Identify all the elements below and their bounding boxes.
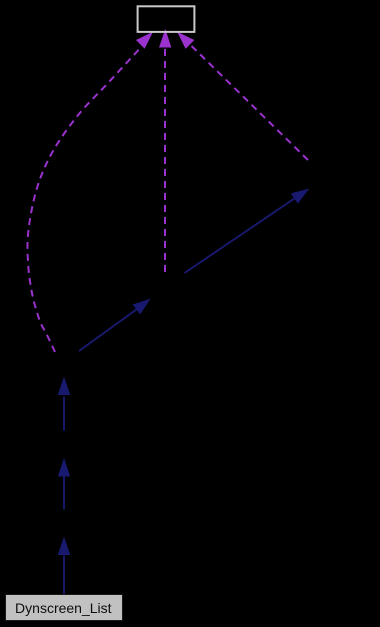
node Dynscreen_List (current class, grey box) xyxy=(6,595,123,621)
edge: node5 to node4 (inheritance, solid blue vertical) xyxy=(59,460,70,510)
edge: middle node to right node (inheritance, solid blue) xyxy=(185,189,309,273)
svg-text:Dynscreen_List: Dynscreen_List xyxy=(15,600,112,616)
edge: right node to top box (usage, dashed purple diagonal) xyxy=(178,33,308,160)
edge: middle node to top box (usage, dashed purple vertical) xyxy=(160,31,171,273)
edge: left node to top box (usage, dashed purple arc) xyxy=(27,33,152,352)
node top (truncated class box) xyxy=(138,6,195,32)
edge: Dynscreen_List to node5 (inheritance, solid blue vertical) xyxy=(59,538,70,595)
edge: node4 to left node (inheritance, solid blue vertical) xyxy=(59,378,70,431)
edge: left node to middle node (inheritance, solid blue) xyxy=(79,300,150,352)
